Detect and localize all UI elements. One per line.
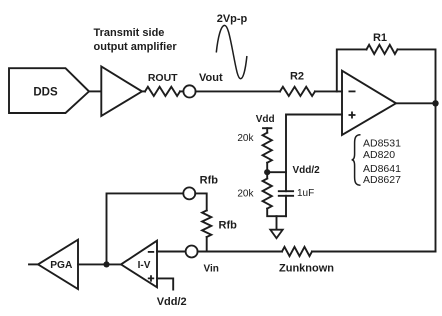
junction dot Vdd/2 bbox=[264, 169, 270, 175]
wire inverting node up to R1 bbox=[337, 49, 367, 91]
supply Vdd bbox=[256, 114, 275, 133]
svg-text:I-V: I-V bbox=[138, 260, 151, 271]
wire Zunknown to right vertical bbox=[312, 251, 436, 253]
sine wave annotation 2Vp-p bbox=[216, 13, 247, 79]
svg-text:2Vp-p: 2Vp-p bbox=[217, 13, 248, 25]
svg-text:AD820: AD820 bbox=[363, 149, 395, 161]
node Vin (probe circle) bbox=[186, 246, 219, 275]
svg-text:Transmit side: Transmit side bbox=[94, 27, 165, 39]
wire PGA output stub bbox=[29, 263, 38, 265]
wire R2 to op-amp inverting input bbox=[315, 90, 342, 92]
resistor Zunknown bbox=[279, 247, 334, 275]
svg-text:R1: R1 bbox=[373, 32, 387, 44]
part list AD8531 AD820 AD8641 AD8627 bbox=[363, 138, 401, 187]
svg-text:Vdd/2: Vdd/2 bbox=[157, 296, 187, 308]
wire ROUT to Vout node bbox=[180, 90, 183, 92]
svg-text:20k: 20k bbox=[237, 189, 254, 200]
svg-text:AD8531: AD8531 bbox=[363, 138, 401, 150]
resistor 20k lower bbox=[237, 179, 271, 209]
wire R1 to output node bbox=[398, 49, 436, 103]
brace for op-amp part list bbox=[352, 135, 361, 185]
node Vout (probe circle) bbox=[183, 72, 223, 98]
svg-text:1uF: 1uF bbox=[297, 188, 314, 199]
wire Vin to Zunknown bbox=[198, 251, 282, 253]
svg-text:AD8641: AD8641 bbox=[363, 163, 401, 175]
capacitor 1uF bbox=[279, 172, 314, 216]
I-V amplifier U2 bbox=[121, 241, 157, 288]
wire inverting input to Vin node bbox=[157, 251, 186, 253]
resistor 20k upper bbox=[237, 133, 271, 163]
svg-text:PGA: PGA bbox=[50, 260, 73, 271]
DDS block bbox=[9, 68, 89, 113]
wire Vdd/2 to op-amp + input bbox=[286, 115, 342, 173]
resistor R1 bbox=[367, 32, 398, 54]
junction dot output node bbox=[432, 100, 438, 106]
wire amplifier to ROUT bbox=[142, 90, 146, 92]
svg-text:AD8627: AD8627 bbox=[363, 174, 401, 186]
op-amp U1 bbox=[342, 71, 396, 135]
wire Rfb node to resistor bbox=[195, 193, 206, 210]
svg-text:Vdd/2: Vdd/2 bbox=[293, 165, 321, 176]
svg-text:20k: 20k bbox=[237, 133, 254, 144]
junction dot feedback node bbox=[103, 261, 109, 267]
svg-text:Vout: Vout bbox=[199, 72, 223, 84]
svg-text:Rfb: Rfb bbox=[200, 175, 219, 187]
wire to Vdd/2 node bbox=[266, 163, 268, 179]
wire DDS to amplifier bbox=[89, 90, 101, 92]
svg-text:R2: R2 bbox=[290, 71, 304, 83]
wire Vout to R2 bbox=[196, 90, 280, 92]
ground bbox=[270, 216, 282, 238]
wire right vertical to Zunknown bbox=[435, 103, 437, 251]
wire resistor bottom bbox=[267, 209, 286, 217]
svg-text:DDS: DDS bbox=[33, 87, 58, 99]
wire I-V output to PGA bbox=[78, 263, 121, 265]
resistor Rfb bbox=[202, 210, 237, 237]
wire op-amp output bbox=[396, 102, 436, 104]
resistor R2 bbox=[280, 71, 315, 97]
transmit amplifier A1 bbox=[101, 67, 142, 117]
wire noninverting input to Vdd/2 stub bbox=[157, 278, 187, 308]
node Rfb (probe circle) bbox=[183, 175, 218, 200]
wire Rfb to inverting line bbox=[206, 237, 208, 252]
wire feedback from output node up bbox=[107, 193, 184, 264]
PGA amplifier bbox=[38, 240, 78, 289]
svg-text:Rfb: Rfb bbox=[219, 220, 238, 232]
label: Transmit side output amplifier bbox=[94, 27, 178, 53]
svg-text:Vin: Vin bbox=[204, 264, 219, 275]
svg-text:ROUT: ROUT bbox=[148, 72, 178, 84]
svg-text:Zunknown: Zunknown bbox=[279, 263, 334, 275]
svg-text:output amplifier: output amplifier bbox=[94, 41, 178, 53]
node Vdd/2 bbox=[267, 165, 320, 176]
resistor ROUT bbox=[145, 72, 180, 96]
svg-text:Vdd: Vdd bbox=[256, 114, 275, 125]
